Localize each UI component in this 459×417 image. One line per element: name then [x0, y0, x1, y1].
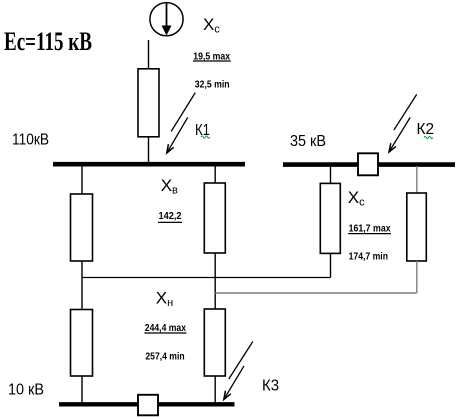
- winding Хс rectangle (35kV side): [320, 183, 340, 253]
- wire 35kV bus to Хс winding: [330, 166, 332, 183]
- wire source to system reactor: [148, 40, 150, 69]
- wire center winding down through node: [214, 253, 216, 309]
- svg-text:110кВ: 110кВ: [12, 131, 49, 148]
- source U1 (equivalent system, circle with arrow): [150, 3, 183, 36]
- svg-text:257,4 min: 257,4 min: [145, 350, 184, 362]
- fault K1 lightning arrow: [167, 93, 196, 153]
- winding Хв center rectangle: [204, 183, 225, 253]
- wire 110kV bus to center HV winding: [214, 166, 216, 183]
- svg-text:174,7 min: 174,7 min: [349, 251, 388, 263]
- svg-text:32,5 min: 32,5 min: [195, 79, 230, 91]
- wire node line to left LV winding: [81, 278, 83, 310]
- svg-text:Хс: Хс: [203, 15, 220, 36]
- svg-text:35 кВ: 35 кВ: [290, 133, 326, 150]
- spellcheck squiggle under К2: [424, 136, 433, 138]
- winding Хв left rectangle: [71, 194, 93, 261]
- fault K2 lightning arrow: [389, 94, 417, 152]
- reactor Xc rectangle (system): [138, 69, 159, 137]
- bus 110кВ: [53, 162, 245, 167]
- wire reactor to 110kV bus: [148, 137, 150, 163]
- wire left LV winding to 10kV bus: [81, 376, 83, 404]
- winding Хн left rectangle: [71, 310, 93, 377]
- breaker box on 10кВ bus: [138, 395, 158, 416]
- svg-text:К2: К2: [417, 121, 435, 138]
- svg-text:Хв: Хв: [161, 176, 178, 197]
- fault K3 lightning arrow: [224, 342, 253, 400]
- right load rectangle: [407, 193, 427, 261]
- gray wire 35kV bus to right load branch: [416, 166, 418, 193]
- svg-text:10 кВ: 10 кВ: [8, 382, 44, 399]
- gray wire to center node: [215, 292, 417, 294]
- svg-text:161,7 max: 161,7 max: [349, 223, 391, 235]
- svg-text:142,2: 142,2: [159, 210, 182, 222]
- spellcheck squiggle under К1: [201, 136, 210, 138]
- svg-text:Хс: Хс: [348, 188, 365, 209]
- bus 35 кВ: [283, 162, 455, 167]
- winding Хн center rectangle: [204, 309, 225, 376]
- svg-text:Хн: Хн: [156, 289, 173, 310]
- wire center LV winding to 10kV bus: [214, 376, 216, 404]
- node line Хн (horizontal): [82, 277, 331, 279]
- svg-text:Ec=115 кВ: Ec=115 кВ: [4, 27, 92, 56]
- wire 110kV bus to left HV winding: [81, 166, 83, 194]
- gray wire right load down: [416, 261, 418, 293]
- wire left winding to node line: [81, 261, 83, 278]
- wire Хс winding to node line: [330, 253, 332, 277]
- bus 10 кВ: [59, 402, 235, 406]
- svg-text:К3: К3: [262, 377, 279, 394]
- breaker box on 35кВ bus: [358, 153, 378, 175]
